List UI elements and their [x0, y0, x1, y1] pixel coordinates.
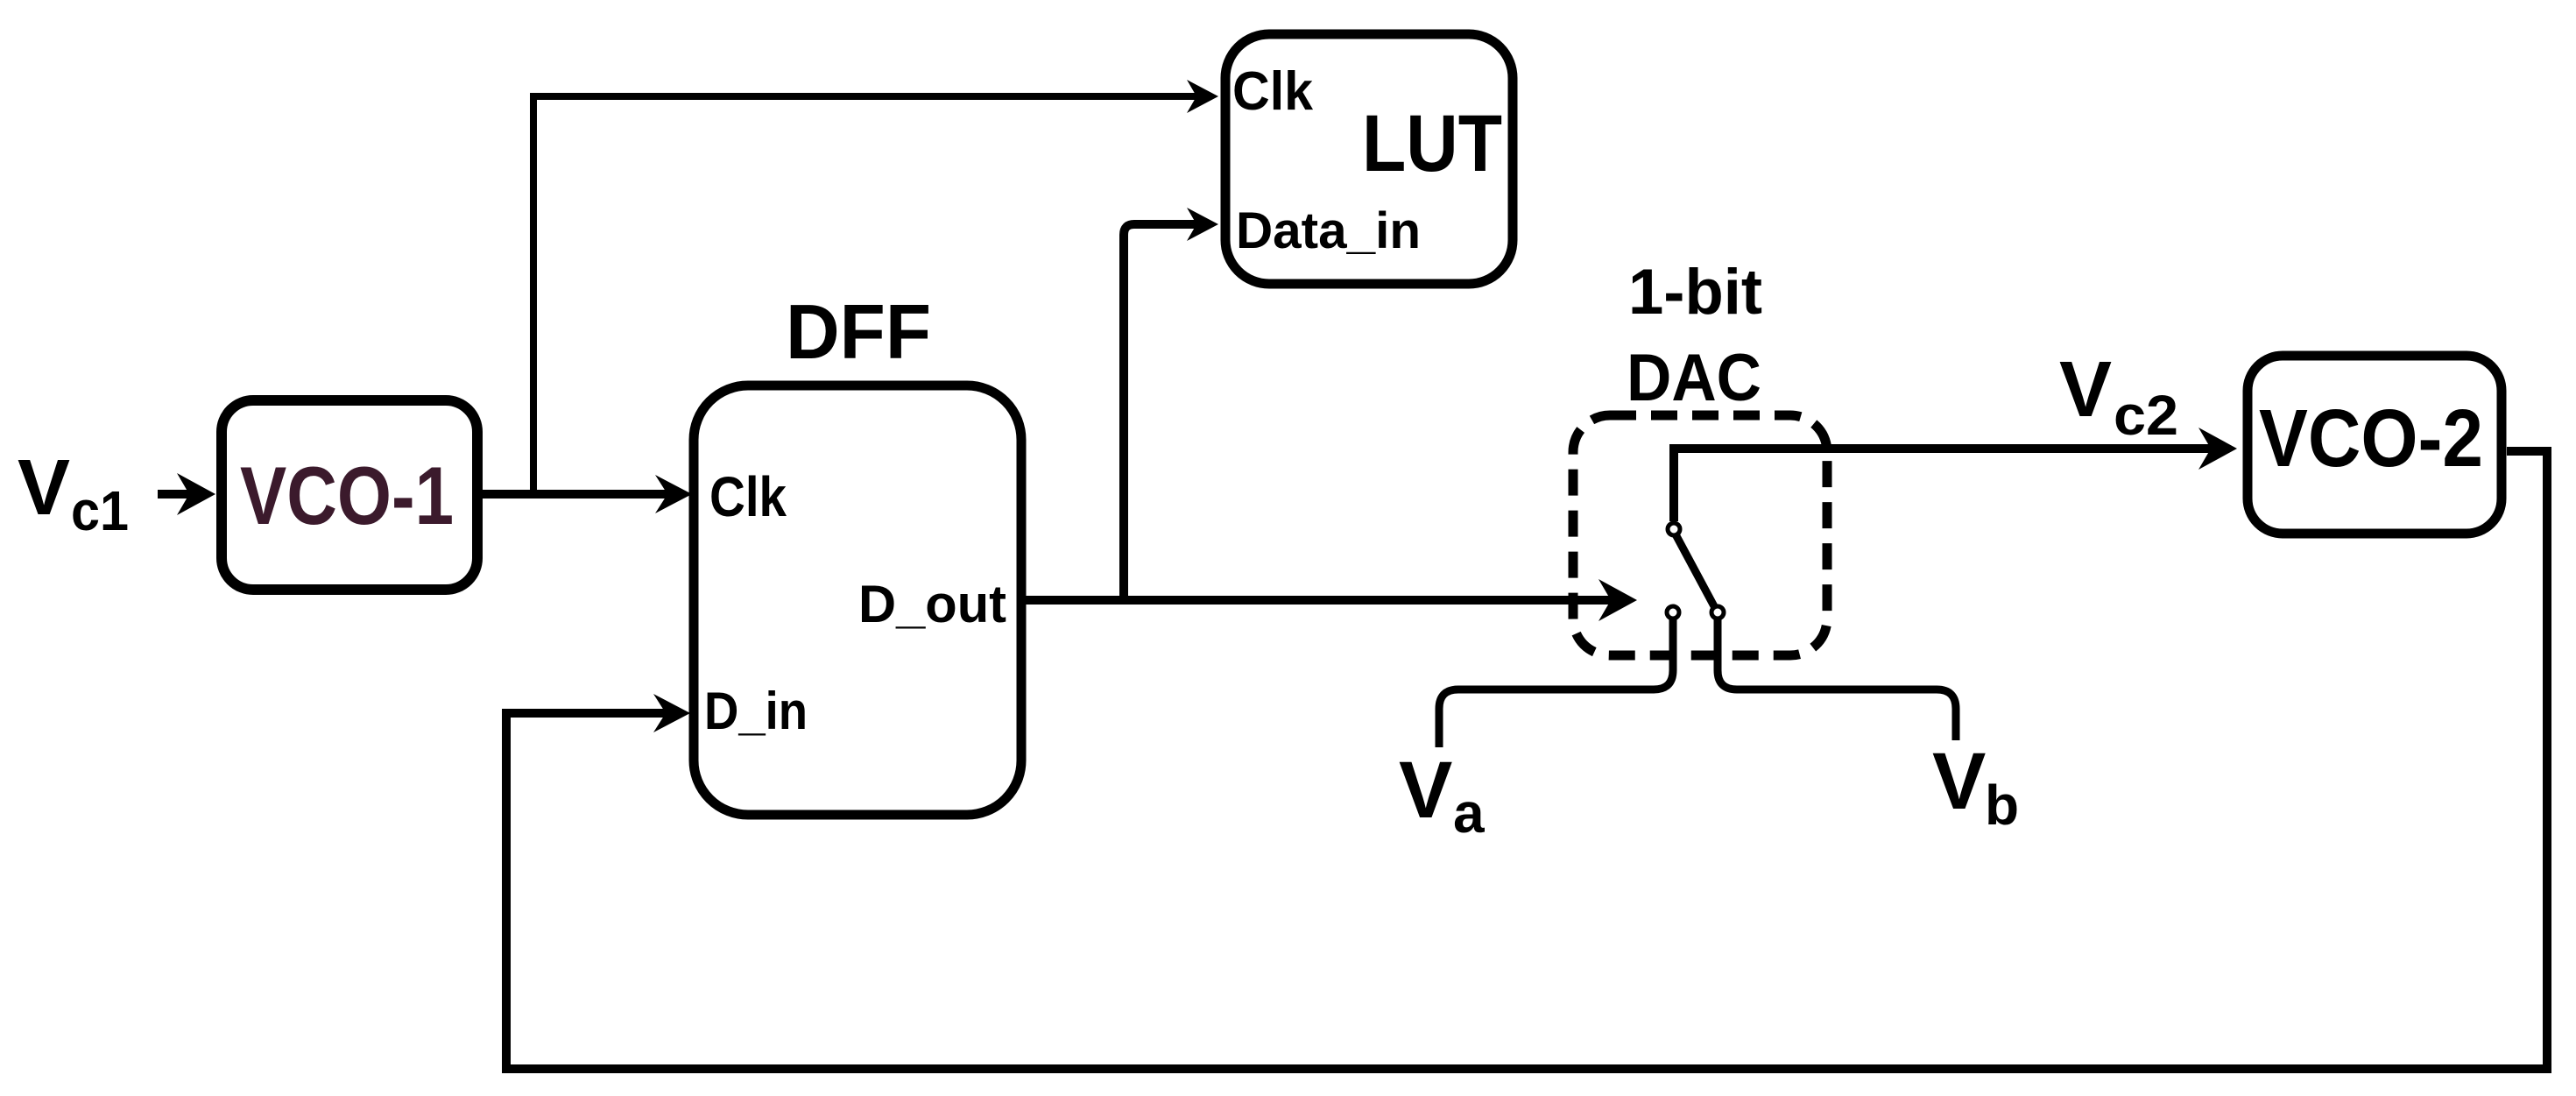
svg-text:DAC: DAC — [1627, 341, 1761, 415]
svg-text:V: V — [2059, 346, 2112, 434]
svg-text:V: V — [1932, 737, 1986, 826]
node Vb label — [1932, 737, 2019, 837]
svg-text:Clk: Clk — [709, 465, 787, 528]
node Vc1 label — [18, 444, 129, 542]
svg-text:V: V — [18, 444, 70, 532]
wire D_out output — [1026, 596, 1612, 605]
switch arm — [1676, 534, 1714, 606]
svg-text:b: b — [1985, 774, 2019, 837]
svg-text:a: a — [1453, 781, 1485, 845]
switch contact top — [1668, 523, 1680, 535]
svg-text:D_in: D_in — [704, 682, 808, 740]
switch contact bottom-left — [1667, 606, 1679, 619]
arrowhead into VCO-2 — [2198, 428, 2237, 470]
DAC dashed box — [1573, 415, 1827, 655]
arrowhead into DFF Clk — [655, 475, 692, 513]
arrowhead into DAC switch — [1599, 579, 1637, 621]
arrowhead into LUT Data_in — [1187, 208, 1218, 241]
svg-text:1-bit: 1-bit — [1628, 257, 1762, 328]
svg-text:Clk: Clk — [1232, 61, 1313, 122]
svg-text:VCO-1: VCO-1 — [240, 449, 454, 541]
svg-text:c1: c1 — [71, 479, 129, 542]
wire clk branch vertical — [530, 96, 537, 494]
svg-text:Data_in: Data_in — [1236, 202, 1421, 259]
wire Data_in branch — [1124, 224, 1196, 605]
svg-text:c2: c2 — [2114, 384, 2178, 447]
svg-text:D_out: D_out — [858, 575, 1006, 633]
node Vc2 label — [2059, 346, 2178, 447]
wire VCO-1 output to DFF Clk — [483, 490, 667, 499]
arrowhead into LUT Clk — [1187, 80, 1218, 113]
svg-text:V: V — [1399, 746, 1452, 835]
oscillator VCO-2 box — [2248, 356, 2502, 534]
LUT box — [1225, 34, 1513, 284]
wire Vc1 input stub — [158, 490, 190, 499]
switch contact bottom-right — [1711, 606, 1724, 619]
node Va label — [1399, 746, 1485, 845]
svg-text:DFF: DFF — [786, 288, 931, 375]
oscillator VCO-1 box — [222, 400, 477, 590]
wire clk branch horizontal to LUT — [530, 93, 1196, 100]
wire switch pole vertical — [1669, 449, 1678, 521]
svg-text:LUT: LUT — [1362, 99, 1502, 188]
wire Vb lead — [1718, 619, 1956, 740]
wire Va lead — [1439, 619, 1673, 747]
flip-flop DFF box — [694, 385, 1021, 815]
wire VCO-2 output feedback loop — [506, 451, 2547, 1069]
arrowhead into VCO-1 — [177, 473, 215, 515]
arrowhead into DFF D_in — [653, 694, 690, 732]
svg-text:VCO-2: VCO-2 — [2259, 392, 2483, 484]
wire DAC output to VCO-2 — [1669, 444, 2212, 453]
